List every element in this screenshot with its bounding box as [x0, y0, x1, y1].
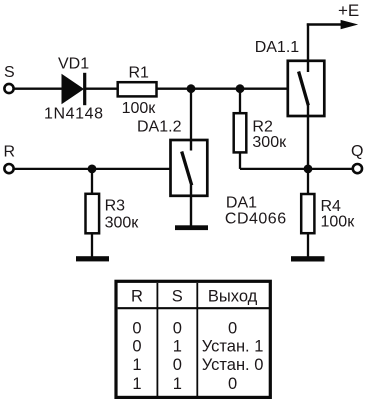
junction node: S line / DA1.2 input: [187, 84, 196, 93]
resistor R1 100к: [118, 64, 157, 117]
resistor R4 100к: [301, 194, 355, 233]
switch DA1.2 (analog switch): [137, 119, 207, 196]
svg-text:300к: 300к: [105, 214, 140, 231]
svg-text:300к: 300к: [252, 134, 287, 151]
svg-text:1: 1: [132, 375, 141, 393]
svg-text:R: R: [4, 144, 16, 161]
svg-text:S: S: [4, 64, 15, 81]
svg-text:CD4066: CD4066: [225, 210, 287, 227]
power rail +E with arrow: [307, 1, 359, 60]
svg-text:0: 0: [173, 319, 182, 337]
svg-text:R: R: [131, 288, 143, 306]
svg-text:1N4148: 1N4148: [44, 105, 104, 122]
ground under R4: [291, 256, 325, 261]
svg-text:VD1: VD1: [58, 55, 89, 72]
svg-text:DA1: DA1: [226, 195, 257, 212]
truth table row 2: 0 1 Устан. 1: [132, 337, 263, 355]
switch DA1.1 (analog switch): [255, 39, 325, 116]
resistor R2 300к: [234, 113, 287, 152]
truth table header: R S Выход: [131, 288, 258, 306]
wire: R1 to DA1.1 control pin (main S line): [157, 88, 287, 90]
svg-text:DA1.2: DA1.2: [137, 119, 182, 136]
svg-text:100к: 100к: [122, 100, 157, 117]
svg-text:Выход: Выход: [208, 288, 258, 306]
junction node: S line / R2: [236, 84, 245, 93]
wire: R3 junction down to R3: [91, 169, 93, 194]
svg-text:1: 1: [173, 337, 182, 355]
input terminal S: [4, 64, 15, 93]
junction node: Q line / R4 / DA1.1: [304, 165, 313, 174]
wire: Q node down to R4: [307, 169, 309, 194]
wire: R4 to ground: [307, 233, 309, 257]
wire: VD1 cathode to R1: [86, 88, 117, 90]
truth table frame: [116, 281, 270, 397]
svg-text:0: 0: [228, 375, 237, 393]
junction node: R line / R3: [88, 165, 97, 174]
svg-text:0: 0: [132, 319, 141, 337]
svg-text:R3: R3: [105, 198, 126, 215]
wire: R2 bottom to Q line: [240, 153, 353, 169]
svg-text:1: 1: [173, 375, 182, 393]
svg-text:100к: 100к: [321, 213, 356, 230]
svg-text:R1: R1: [129, 64, 150, 81]
wire: R3 to ground: [91, 233, 93, 257]
truth table row 4: 1 1 0: [132, 375, 237, 393]
wire: S terminal to VD1 anode: [14, 88, 62, 90]
svg-text:0: 0: [132, 337, 141, 355]
diode VD1 1N4148: [44, 55, 104, 122]
svg-text:0: 0: [173, 356, 182, 374]
IC designator DA1 CD4066: [225, 195, 287, 228]
svg-text:R2: R2: [252, 119, 273, 136]
resistor R3 300к: [86, 194, 140, 234]
wire: DA1.2 bottom pin to ground: [190, 185, 192, 226]
wire: R2 junction down to R2: [239, 89, 241, 113]
svg-text:1: 1: [132, 356, 141, 374]
svg-text:0: 0: [228, 319, 237, 337]
ground under DA1.2: [175, 225, 208, 230]
svg-text:Q: Q: [351, 143, 363, 160]
wire: junction down to DA1.2 top pin: [190, 89, 192, 151]
truth table row 3: 1 0 Устан. 0: [132, 356, 263, 374]
svg-text:Устан. 0: Устан. 0: [202, 356, 264, 374]
truth table header separator: [118, 307, 270, 309]
svg-text:DA1.1: DA1.1: [255, 39, 300, 56]
svg-text:S: S: [172, 288, 183, 306]
wire: R terminal to DA1.2 control pin: [14, 168, 170, 170]
svg-text:Устан. 1: Устан. 1: [202, 337, 264, 355]
input terminal R: [4, 144, 16, 174]
truth table column divider 2: [196, 283, 198, 396]
truth table column divider 1: [156, 283, 158, 396]
truth table row 1: 0 0 0: [132, 319, 237, 337]
ground under R3: [76, 256, 109, 261]
wire: DA1.1 bottom pin to Q node: [307, 105, 309, 169]
svg-text:+E: +E: [338, 1, 359, 20]
output terminal Q: [351, 143, 363, 173]
